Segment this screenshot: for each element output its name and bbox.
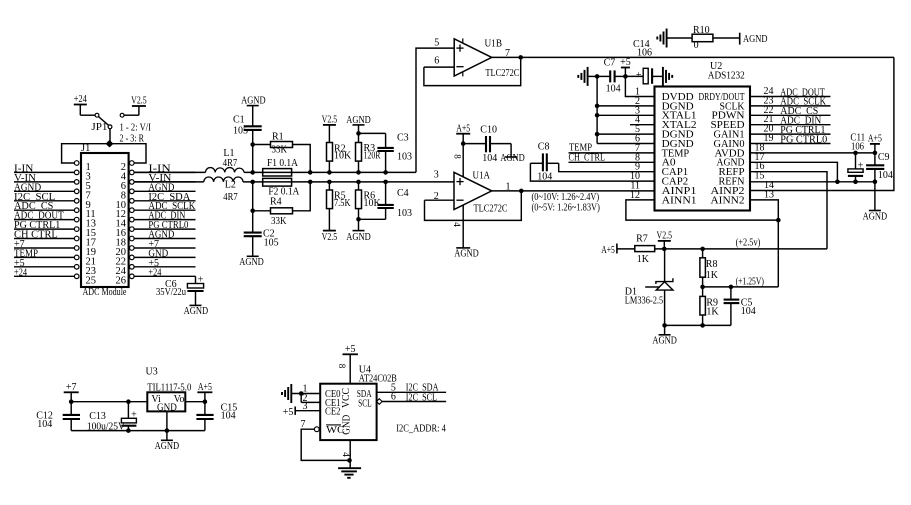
svg-text:104: 104 [37,419,52,430]
power V2.5 (JP1 pin3) [124,96,147,116]
power +7 (U3 input) [64,382,79,402]
svg-text:25: 25 [86,275,97,286]
power +5 (U4 CE2) [283,407,320,418]
junction: JP1 common node (diamond) [106,140,114,148]
junction: AINN1/AINN2 tie [776,218,781,223]
capacitor C1 105 [233,106,262,173]
wire: AINN2 (U2 pin13) to +1.25V [750,200,778,287]
svg-text:26: 26 [116,275,127,286]
net ADC_SCLK (J1 pin 12) wire+label [134,201,196,212]
net V-IN (J1 pin 5) wire+label [14,173,74,184]
svg-text:C8: C8 [538,142,550,153]
wire: DGND tie (U2 pins 2,3,5,6) [597,76,654,143]
svg-text:U3: U3 [146,366,158,377]
power A+5 (above U1A) [456,123,470,177]
net +5 (J1 pin 24) wire+label [134,258,195,269]
svg-text:F1 0.1A: F1 0.1A [267,158,299,169]
svg-text:106: 106 [637,47,652,58]
op-amp U1A TLC272C [454,171,508,215]
svg-text:6: 6 [434,55,439,66]
power V2.5 (above R2) [322,115,338,143]
junctions on +1.25V rail [700,285,733,290]
power AGND (below R6) [346,219,371,243]
svg-text:C3: C3 [397,133,409,144]
junctions on reference AGND rail [662,323,705,328]
svg-text:(+1.25V): (+1.25V) [736,277,764,288]
svg-text:C9: C9 [878,152,890,163]
net AGND (J1 pin 8) wire+label [134,182,195,193]
svg-text:104: 104 [606,84,621,95]
net V-IN (J1 pin 6) wire+label [134,173,195,184]
junction: R1 left tap [250,142,255,147]
svg-text:8: 8 [337,364,347,369]
resistor R7 1K [635,234,827,265]
svg-text:LM336-2.5: LM336-2.5 [625,296,663,307]
svg-text:104: 104 [741,306,756,317]
wire: U4 WC loop [301,427,349,461]
wire: +1.25V rail [703,286,779,288]
svg-text:1K: 1K [706,270,719,281]
wire: J1 pin1/pin2 loop to JP1 common node [62,144,146,163]
svg-text:AGND: AGND [155,441,180,452]
net GND (J1 pin 22) wire+label [134,248,195,259]
power AGND (below C2) [239,256,264,268]
power AGND (below U1A) [454,248,479,260]
resistor R3 120R [356,133,381,172]
resistor R6 10K [356,182,382,219]
power AGND (below C6) [184,305,209,317]
svg-text:103: 103 [397,151,412,162]
net AGND (J1 pin 7) wire+label [14,182,74,193]
svg-text:0: 0 [694,40,699,51]
svg-text:4: 4 [452,222,462,227]
wire: U1A feedback loop [425,191,522,221]
svg-text:R4: R4 [270,196,282,207]
svg-text:AGND: AGND [241,95,266,106]
power AGND (C10) [500,153,525,164]
wire: U4 CE0/CE1 tie [291,394,320,403]
junction: R6/C4 node [356,217,361,222]
svg-text:V2.5: V2.5 [657,231,673,242]
svg-text:TLC272C: TLC272C [474,203,508,214]
wire: U1B feedback loop [424,57,521,85]
regulator U3 TIL1117-5.0 [146,366,192,413]
svg-text:A+5: A+5 [456,123,470,134]
svg-text:8: 8 [453,154,463,159]
net CH CTRL (J1 pin 17) wire+label [14,230,74,241]
wire: U3 GND pin [166,411,168,440]
svg-text:C13: C13 [89,411,106,422]
svg-text:+7: +7 [66,382,77,393]
resistor R8 1K [700,249,719,287]
svg-text:1 - 2: V/I: 1 - 2: V/I [120,122,152,133]
capacitor C14 106 (polarized) [625,39,663,84]
svg-text:+24: +24 [14,267,27,278]
svg-text:+5: +5 [283,407,294,418]
net I2C_SCL (J1 pin 9) wire+label [14,192,74,203]
svg-text:+24: +24 [74,94,87,105]
svg-text:104: 104 [878,170,893,181]
svg-text:GND: GND [342,415,353,435]
wire: U3 output [185,401,205,403]
junction: U4 GND/WC node [347,458,352,463]
ground (left of U4) [290,384,292,403]
capacitor C2 105 [244,182,279,256]
net PG CTRL0 (J1 pin 16) wire+label [134,220,195,231]
inductor L2 4R7 [204,177,243,203]
svg-text:4: 4 [341,452,351,457]
svg-text:(0~5V: 1.26~1.83V): (0~5V: 1.26~1.83V) [532,202,600,213]
net I-IN (J1 pin 3) wire+label [14,163,74,174]
ground AGND (left of R10) [657,29,692,48]
svg-text:4R7: 4R7 [223,158,237,169]
svg-text:33K: 33K [272,145,288,156]
svg-text:AINN1: AINN1 [662,195,697,206]
svg-text:1K: 1K [706,307,719,318]
junction: U3 output node [203,399,208,404]
svg-text:33K: 33K [271,216,287,227]
capacitor C4 103 [359,182,413,219]
power AGND (above C1) [241,95,266,106]
svg-text:106: 106 [851,141,864,152]
power AGND (below D1) [652,325,677,346]
junction: CE0/CE1 node [299,391,304,396]
capacitor C5 104 [724,287,756,326]
inductor L1 4R7 [206,148,245,172]
wire: V-IN rail (J1 pin6 to L2) [134,181,204,183]
svg-text:105: 105 [264,237,279,248]
junction: A+5/C10 node [461,141,466,146]
svg-text:AGND: AGND [743,34,768,45]
capacitor C9 104 [866,152,893,182]
wire: I-IN rail (J1 pin4 to L1) [134,171,205,173]
svg-text:VCC: VCC [341,388,352,408]
svg-text:CH_CTRL: CH_CTRL [569,152,606,163]
wire: U2 pin17 AGND to REFN rail [750,162,837,182]
svg-text:104: 104 [482,153,497,164]
svg-text:V2.5: V2.5 [322,232,338,243]
net ADC_CS (J1 pin 11) wire+label [14,201,74,212]
junction: R3/C3 node [356,131,361,136]
wire: U1A pin2 input [425,199,455,201]
resistor R5 7.5K [327,182,352,231]
svg-text:C7: C7 [604,58,616,69]
svg-text:3: 3 [303,401,308,412]
svg-text:ADC Module: ADC Module [83,287,127,298]
net +24 (J1 pin 26) wire+label [134,267,195,278]
svg-text:104: 104 [537,172,552,183]
net ADC_CS (U2 pin 22) wire+label [750,106,831,117]
power +5 (above U4) [343,344,358,384]
svg-text:C1: C1 [233,115,245,126]
svg-text:2 - 3: R: 2 - 3: R [120,134,145,145]
svg-text:V2.5: V2.5 [131,96,147,107]
IC U4 AT24C02B [320,365,397,440]
svg-text:U1A: U1A [473,171,491,182]
net TEMP (J1 pin 21) wire+label [14,248,74,259]
net +5 (J1 pin 23) wire+label [14,258,74,269]
svg-text:CE2: CE2 [325,406,341,417]
wire: J1 pin26 to C6 [195,276,197,283]
svg-text:7.5K: 7.5K [334,198,351,209]
power AGND (right of R10) [740,33,768,45]
net TEMP (U2 pin7) wire+label [569,143,655,154]
svg-text:TIL1117-5.0: TIL1117-5.0 [147,383,191,394]
ground (below U4) [338,468,361,478]
wire: U3 input rail [71,401,147,403]
power A+5 (U3 output) [197,382,212,402]
wire: I-IN rail (L1 to opamp U1B) [244,48,454,172]
svg-text:C4: C4 [397,188,409,199]
ground DGND (left of C7) [578,67,597,86]
capacitor C7 104 [597,58,625,95]
wire: REFN rail (U2 pin15) [750,181,875,183]
svg-text:105: 105 [233,125,248,136]
wire: U1B pin6 input [424,66,454,68]
net I-IN (J1 pin 4) wire+label [134,163,195,174]
svg-text:4R7: 4R7 [223,192,237,203]
junction: U1A output/feedback [519,189,524,194]
power +5 (U2 DVDD) [620,57,654,96]
power +24 (JP1 pin1) [74,94,95,115]
junctions on +2.5V rail [662,247,705,252]
svg-text:PG CTRL0: PG CTRL0 [780,134,827,145]
net ADC_DIN (J1 pin 14) wire+label [134,211,195,222]
svg-text:6: 6 [391,392,396,403]
net PG CTRL0 (U2 pin 19) wire+label [750,134,831,145]
net PG CTRL1 (J1 pin 15) wire+label [14,220,74,231]
net I2C_SCL (U4 pin6) wire+label [377,392,447,405]
svg-text:35V/22u: 35V/22u [156,287,186,298]
wire: U1A output to AINP1 (U2 pin11) [492,190,655,192]
svg-text:AGND: AGND [239,257,264,268]
net +7 (J1 pin 19) wire+label [14,239,74,250]
junctions on REFN rail [835,180,877,185]
svg-text:V2.5: V2.5 [322,115,338,126]
svg-text:AINN2: AINN2 [711,195,745,206]
wire: V-IN rail (L2 to opamp U1A pin3) [243,181,454,183]
diode D1 LM336-2.5 [625,249,673,326]
junctions on I-IN rail [250,170,388,175]
svg-text:3: 3 [434,170,439,181]
jumper JP1 [91,113,124,143]
svg-text:AGND: AGND [652,335,677,346]
net ADC_DIN (U2 pin 21) wire+label [750,116,831,127]
svg-text:J1: J1 [81,143,90,154]
power V2.5 (below R5) [322,231,338,243]
capacitor C13 100u/25V (polarized) [87,402,137,433]
svg-text:I2C_ADDR: 4: I2C_ADDR: 4 [396,423,446,434]
capacitor C6 35V/22u (polarized) [156,275,204,306]
svg-text:AGND: AGND [184,306,209,317]
svg-text:TLC272C: TLC272C [485,68,519,79]
svg-text:JP1: JP1 [91,122,107,133]
capacitor C15 104 [196,402,237,431]
svg-text:A+5: A+5 [601,245,615,256]
wire: AINN1 (U2 pin12) loop [626,200,778,220]
wire: U4 GND pin [349,440,351,468]
power AGND (below U3) [155,440,180,452]
fuse F1 0.1A [263,158,299,176]
junction: +5/C7/C14 node [623,74,628,79]
op-amp U1B TLC272C [454,38,519,78]
junctions on U3 ground rail [126,428,169,433]
junctions on DGND tie [595,74,600,136]
wire: XTAL2 stub (U2 pin4) [630,124,655,126]
svg-text:13: 13 [764,189,774,200]
svg-text:+24: +24 [148,267,161,278]
svg-text:ADS1232: ADS1232 [708,71,745,82]
svg-text:103: 103 [397,208,412,219]
svg-text:AGND: AGND [500,153,525,164]
power AGND (above R3) [346,115,371,133]
junctions on U3 input rail [69,399,131,404]
capacitor C11 106 (polarized) [848,132,865,182]
wire: reference AGND rail [665,324,731,326]
svg-text:(+2.5v): (+2.5v) [736,237,761,248]
svg-text:R1: R1 [272,132,284,143]
wire: U1B output to AINP2 (net to U2 pin14) [492,57,894,190]
svg-text:5: 5 [434,38,439,49]
net +24 (J1 pin 25) wire+label [14,267,74,278]
net PG CTRL1 (U2 pin 20) wire+label [750,125,831,136]
power A+5 (right) [868,134,882,153]
junctions on V-IN rail [250,180,388,185]
svg-text:A+5: A+5 [868,134,882,145]
capacitor C12 104 [36,402,80,431]
svg-text:AGND: AGND [863,212,888,223]
capacitor C3 103 [359,133,413,173]
net +7 (J1 pin 20) wire+label [134,239,195,250]
svg-text:10K: 10K [334,151,352,162]
svg-text:C10: C10 [480,124,497,135]
wire: U3 ground rail [71,430,205,432]
net CH_CTRL (U2 pin8) wire+label [569,152,655,163]
svg-text:R7: R7 [636,234,648,245]
svg-text:SCL: SCL [358,398,372,409]
svg-text:AGND: AGND [346,232,371,243]
ground DGND (right of C14) [662,67,664,86]
wire: REFP (U2 pin16) to +2.5V [750,172,827,249]
svg-text:R8: R8 [706,259,718,270]
svg-text:7: 7 [301,419,306,430]
connector J1 (ADC Module) [74,143,134,298]
wire: AVDD (U2 pin18) to A+5 [750,152,875,154]
power V2.5 (at R7) [657,231,673,249]
svg-text:1K: 1K [637,254,650,265]
junction: U1B output/feedback [518,55,523,60]
svg-text:A+5: A+5 [198,382,212,393]
net I2C_SDA (U4 pin5) wire+label [377,383,447,394]
net I2C_SDA (J1 pin 10) wire+label [134,192,195,203]
power AGND (right of U2) [863,182,888,223]
svg-text:+5: +5 [620,57,631,68]
resistor R10 0 [692,25,740,51]
resistor R1 33K [253,132,311,173]
capacitor C8 104 (U2 CAP1-CAP2) [530,142,654,183]
svg-text:104: 104 [221,411,236,422]
net ADC_DOUT (U2 pin 24) wire+label [750,87,831,98]
svg-text:R10: R10 [693,25,710,36]
IC U2 ADS1232 [630,61,774,211]
resistor R9 1K [700,287,720,326]
svg-text:+: + [636,70,642,81]
net ADC_SCLK (U2 pin 23) wire+label [750,97,831,108]
svg-text:L2: L2 [225,180,236,191]
resistor R4 33K [253,182,311,227]
svg-text:AGND: AGND [454,249,479,260]
capacitor C10 104 [463,124,511,164]
svg-text:U1B: U1B [485,38,503,49]
power A+5 (left of R7) [601,244,635,256]
resistor R2 10K [327,143,353,173]
junctions on AVDD wire [853,151,877,156]
svg-text:I2C_SCL: I2C_SCL [406,392,437,403]
junction: R4 left tap [250,209,255,214]
svg-text:+5: +5 [345,344,356,355]
fuse F2 0.1A [263,178,300,197]
net AGND (J1 pin 18) wire+label [134,230,195,241]
net ADC_DOUT (J1 pin 13) wire+label [14,211,74,222]
wire: U1A pin4 to AGND [462,205,464,248]
